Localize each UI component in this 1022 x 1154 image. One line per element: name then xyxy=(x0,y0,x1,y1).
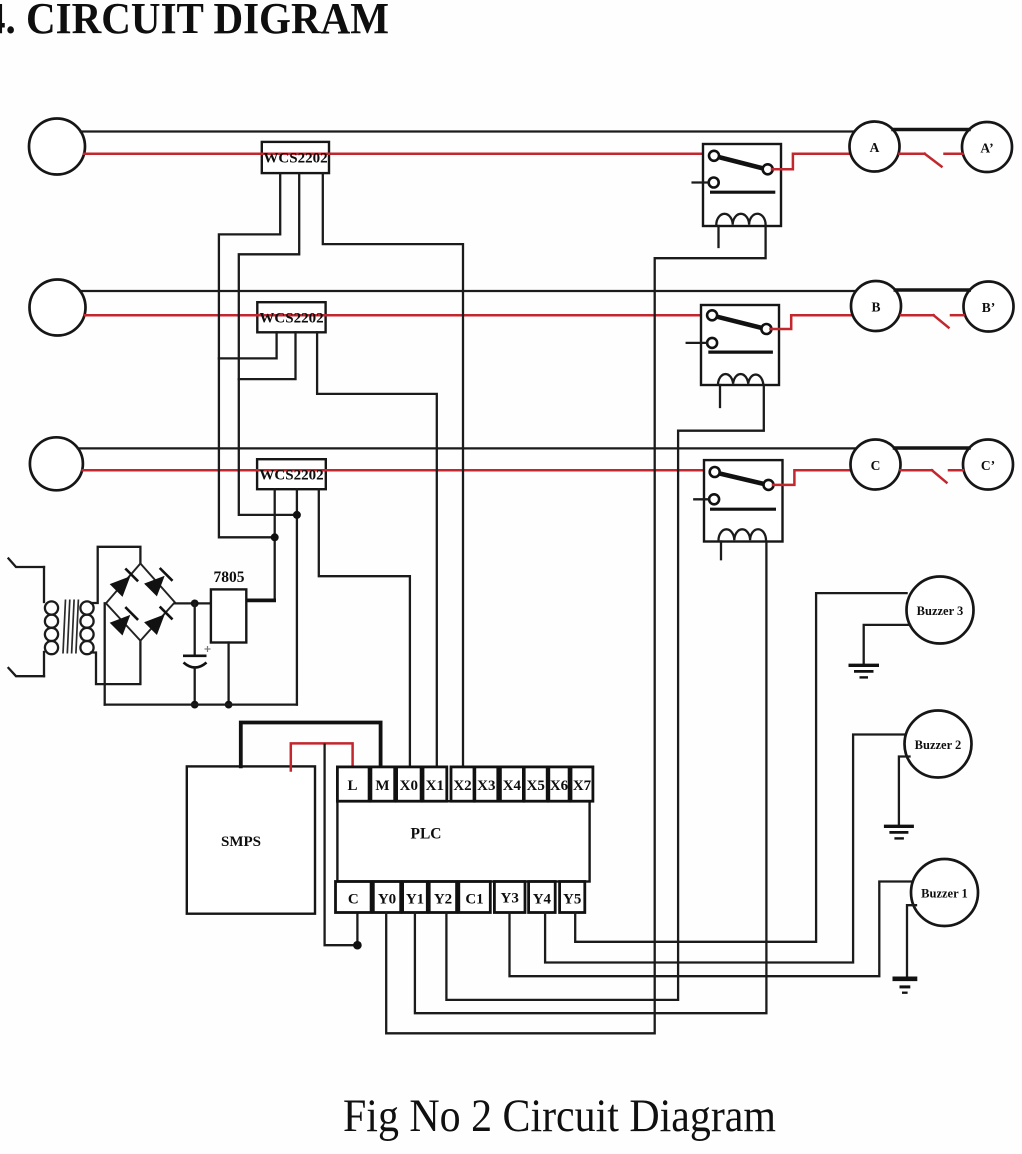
diode D2 xyxy=(144,576,165,597)
current sensor U3 WCS2202 xyxy=(257,459,326,489)
svg-text:A: A xyxy=(870,140,880,155)
wire Y3 to buzzer BZ1 xyxy=(510,882,912,977)
terminal L xyxy=(337,767,369,801)
relay K3 armature bar xyxy=(710,508,776,511)
relay K3 NC contact xyxy=(709,494,719,504)
node 7805 gnd junction xyxy=(225,701,233,709)
wire Y1 to relay K3 coil xyxy=(415,542,767,1014)
diode D4 xyxy=(144,614,165,635)
node 5V junction xyxy=(271,533,279,541)
terminal X6 xyxy=(549,767,569,801)
terminal Y3 xyxy=(494,882,525,913)
regulator U4 7805 xyxy=(211,589,246,642)
switch contact B red xyxy=(901,314,934,317)
terminal J1 hook xyxy=(9,559,45,568)
wire phase B red xyxy=(85,314,708,317)
wire K3 red output xyxy=(773,470,852,485)
wire U3 5V pin to 7805 xyxy=(274,489,276,600)
current sensor U2 WCS2202 xyxy=(257,302,325,332)
svg-text:SMPS: SMPS xyxy=(221,834,261,850)
svg-text:Fig No 2 Circuit Diagram: Fig No 2 Circuit Diagram xyxy=(343,1090,776,1142)
node C xyxy=(851,440,901,490)
wire SMPS to M terminal xyxy=(241,723,381,767)
relay K3 coil xyxy=(719,529,767,540)
svg-text:C’: C’ xyxy=(981,458,995,473)
wire Y4 to buzzer BZ2 xyxy=(545,735,905,963)
diode D3 xyxy=(110,615,131,636)
wire Y5 to buzzer BZ3 xyxy=(575,593,906,942)
node A xyxy=(850,122,900,172)
relay K1 NO contact xyxy=(763,164,773,174)
terminal M xyxy=(371,767,395,801)
relay K1 armature bar xyxy=(710,191,775,194)
relay K3 NO contact xyxy=(764,480,774,490)
relay K3 common contact xyxy=(710,467,720,477)
wire secondary top lead to bridge xyxy=(91,547,140,603)
bridge rectifier BR1 frame xyxy=(106,564,175,641)
transformer T1 primary winding xyxy=(45,601,58,654)
svg-text:A’: A’ xyxy=(980,141,993,156)
source L1 xyxy=(29,119,85,175)
relay K2 blade xyxy=(715,316,762,328)
terminal J2 hook xyxy=(9,668,45,676)
relay K1 blade xyxy=(717,157,764,169)
relay K1 coil xyxy=(716,214,765,225)
wire secondary bottom lead to bridge xyxy=(91,641,140,684)
svg-text:X5: X5 xyxy=(527,778,545,794)
svg-text:C: C xyxy=(348,892,359,908)
svg-text:Y5: Y5 xyxy=(563,892,581,908)
terminal C1 xyxy=(459,882,491,913)
ground BZ2 xyxy=(884,826,914,838)
svg-text:X6: X6 xyxy=(550,778,569,794)
wire K2 coil left stub xyxy=(719,385,721,407)
wire U1 5V pin down xyxy=(219,173,280,537)
svg-text:X0: X0 xyxy=(400,778,418,794)
terminal Y4 xyxy=(529,882,556,913)
source L3 xyxy=(30,437,83,490)
switch blade B red xyxy=(934,315,949,327)
relay K3 box xyxy=(704,460,783,541)
wire SMPS to L terminal red xyxy=(291,743,353,770)
wire bridge minus to rail xyxy=(104,603,106,704)
svg-text:X1: X1 xyxy=(426,778,444,794)
wire B to B' black link xyxy=(895,288,969,291)
wire 7805 output xyxy=(246,599,276,603)
node C' xyxy=(963,440,1013,490)
switch contact A red xyxy=(900,153,925,156)
svg-text:WCS2202: WCS2202 xyxy=(263,151,327,167)
svg-text:X4: X4 xyxy=(503,778,522,794)
svg-text:WCS2202: WCS2202 xyxy=(259,468,323,484)
wire K2 NC lead xyxy=(687,342,707,344)
svg-text:7805: 7805 xyxy=(214,569,245,586)
wire 7805 ground xyxy=(227,643,229,705)
wire C' red stub xyxy=(949,469,963,472)
SMPS PS1 xyxy=(187,766,315,913)
wire phase B black xyxy=(80,290,856,292)
wire ground rail xyxy=(105,703,297,705)
wire B' red stub xyxy=(951,314,964,317)
node GND junction xyxy=(293,511,301,519)
node C terminal junction xyxy=(353,941,362,950)
terminal X3 xyxy=(475,767,498,801)
relay K2 NC contact xyxy=(707,338,717,348)
wire A to A' black link xyxy=(893,128,969,131)
terminal X7 xyxy=(571,767,593,801)
wire A' red stub xyxy=(945,153,963,156)
svg-text:X7: X7 xyxy=(573,778,592,794)
node cap top junction xyxy=(191,600,199,608)
diode D1 xyxy=(110,576,131,597)
wire U3 GND pin to rail xyxy=(296,489,298,704)
terminal Y1 xyxy=(403,882,428,913)
svg-text:Y2: Y2 xyxy=(434,892,452,908)
wire K1 coil left stub xyxy=(717,226,719,247)
svg-text:4. CIRCUIT DIGRAM: 4. CIRCUIT DIGRAM xyxy=(0,0,389,43)
relay K1 NC contact xyxy=(709,178,719,188)
wire K3 NC lead xyxy=(694,498,709,500)
wire U3 signal to X0 xyxy=(319,489,410,767)
wire primary top lead xyxy=(43,567,45,602)
transformer T1 secondary winding xyxy=(80,601,93,654)
svg-text:Buzzer 2: Buzzer 2 xyxy=(915,738,962,752)
svg-text:Buzzer 1: Buzzer 1 xyxy=(921,887,968,901)
buzzer BZ2 xyxy=(905,711,972,778)
source L2 xyxy=(30,280,86,336)
capacitor C1 xyxy=(183,603,211,704)
svg-text:L: L xyxy=(347,778,357,794)
svg-text:B’: B’ xyxy=(982,300,996,315)
relay K2 armature bar xyxy=(708,351,773,354)
transformer T1 core xyxy=(63,600,78,654)
wire bridge plus to regulator xyxy=(175,602,211,604)
svg-text:Y4: Y4 xyxy=(533,892,552,908)
svg-text:X3: X3 xyxy=(477,778,495,794)
wire K1 NC lead xyxy=(693,181,709,183)
wire phase A red xyxy=(84,153,710,156)
terminal X5 xyxy=(524,767,547,801)
wire K2 red output xyxy=(771,315,852,329)
wire U1 signal to X2 xyxy=(323,173,463,767)
wire Y2 to relay K2 coil xyxy=(446,385,763,1000)
wire U1 GND pin down xyxy=(239,173,299,515)
relay K3 blade xyxy=(718,473,765,484)
current sensor U1 WCS2202 xyxy=(262,142,329,173)
switch blade C red xyxy=(932,470,947,482)
svg-text:B: B xyxy=(871,300,880,315)
wire K3 coil left stub xyxy=(720,542,722,560)
wire U2 5V pin down xyxy=(219,332,277,358)
wire C to C' black link xyxy=(894,446,969,449)
wire U2 signal to X1 xyxy=(317,332,437,767)
ground BZ1 xyxy=(893,979,918,993)
relay K2 NO contact xyxy=(761,324,771,334)
node B xyxy=(851,281,901,331)
buzzer BZ1 xyxy=(911,859,978,926)
node B' xyxy=(964,282,1014,332)
svg-text:X2: X2 xyxy=(453,778,471,794)
svg-text:Buzzer 3: Buzzer 3 xyxy=(917,604,964,618)
terminal C xyxy=(336,882,372,913)
svg-text:PLC: PLC xyxy=(411,826,442,843)
svg-text:WCS2202: WCS2202 xyxy=(259,311,323,327)
terminal X1 xyxy=(423,767,447,801)
terminal X0 xyxy=(397,767,422,801)
svg-text:Y0: Y0 xyxy=(378,892,396,908)
terminal Y2 xyxy=(429,882,456,913)
wire BZ3 to ground xyxy=(864,625,910,664)
terminal Y0 xyxy=(373,882,400,913)
wire primary bottom lead xyxy=(43,652,45,676)
relay K1 box xyxy=(703,144,781,226)
wire BZ1 to ground xyxy=(907,905,916,977)
wire phase C red xyxy=(83,469,710,472)
relay K2 box xyxy=(701,305,779,385)
terminal X2 xyxy=(451,767,474,801)
terminal Y5 xyxy=(560,882,585,913)
PLC U5 body xyxy=(337,801,589,881)
ground BZ3 xyxy=(849,665,880,677)
svg-text:Y3: Y3 xyxy=(501,891,519,907)
wire phase A black xyxy=(81,130,855,132)
switch contact C red xyxy=(901,469,933,472)
buzzer BZ3 xyxy=(907,577,974,644)
wire K1 red output xyxy=(772,154,850,170)
svg-text:M: M xyxy=(375,778,389,794)
wire BZ2 to ground xyxy=(899,757,910,825)
node cap bottom junction xyxy=(191,701,199,709)
wire L net to C terminal xyxy=(325,745,358,946)
wire Y0 to relay K1 coil xyxy=(386,226,765,1033)
wire U2 GND pin down xyxy=(239,332,296,379)
relay K2 common contact xyxy=(707,310,717,320)
svg-text:C: C xyxy=(871,458,881,473)
switch blade A red xyxy=(925,154,942,167)
node A' xyxy=(962,122,1012,172)
svg-text:Y1: Y1 xyxy=(406,892,424,908)
relay K2 coil xyxy=(718,374,763,384)
svg-text:C1: C1 xyxy=(465,892,483,908)
wire phase C black xyxy=(78,447,856,449)
terminal X4 xyxy=(500,767,523,801)
relay K1 common contact xyxy=(709,151,719,161)
